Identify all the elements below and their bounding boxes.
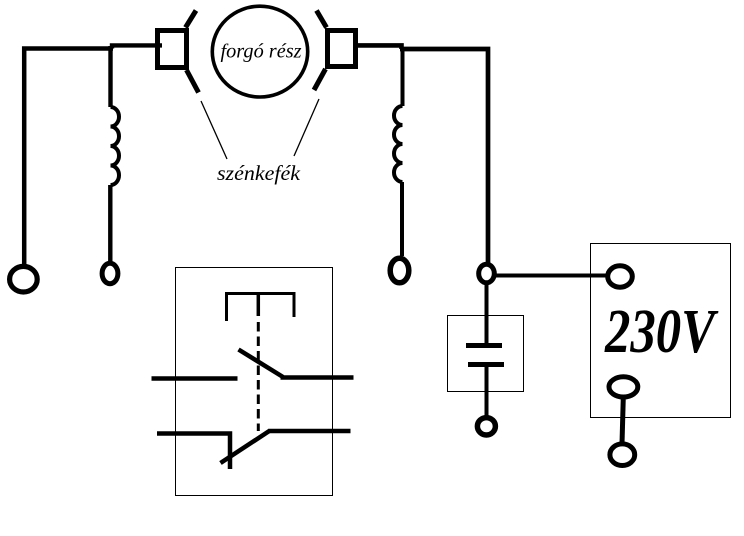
switch S1 pole 1 left contact wire [152, 376, 238, 381]
wire: top horizontal to right vertical [400, 49, 488, 263]
terminal T5 (230V upper) [608, 266, 633, 287]
capacitor C1 bottom plate [468, 362, 504, 367]
switch S1 actuator bar [227, 294, 295, 322]
switch S1 pole 1 right contact wire [281, 375, 354, 380]
terminal T3 (below L2) [390, 258, 409, 283]
wire: C1 to terminal T4 [485, 366, 489, 416]
svg-text:szénkefék: szénkefék [217, 161, 301, 185]
wire: L2 to terminal T3 [400, 182, 404, 256]
terminal T2 (small, below L1) [102, 263, 118, 283]
node N1 (junction circle) [479, 264, 495, 283]
brush B2 upper contact stroke [317, 11, 327, 28]
mains supply box (230V) [591, 244, 731, 418]
rotor circle U1 (forgó rész) [212, 6, 307, 97]
terminal T4 (below capacitor) [477, 418, 495, 435]
wire: node N1 down to capacitor C1 [485, 284, 489, 344]
wire: node N1 to 230V terminal [496, 274, 607, 278]
wire: junction down to field coil L1 [108, 46, 112, 107]
brush B1 upper contact stroke [186, 11, 197, 28]
switch S1 actuator center post [257, 293, 261, 316]
pointer line to left brush [201, 101, 227, 159]
switch S1 coupling dashed line [257, 322, 260, 431]
wire: L1 to terminal T2 [108, 185, 112, 264]
pointer line to right brush [294, 99, 319, 156]
wire: right junction down to field coil L2 [401, 47, 405, 106]
switch S1 enclosure box [176, 268, 333, 496]
brush B1 lower contact stroke [187, 70, 199, 93]
wire: left brush to left junction (upper jog) [112, 45, 162, 48]
switch S1 pole 1 blade [239, 350, 284, 378]
brush B2 (right) holder square [328, 31, 356, 67]
switch S1 pole 2 blade [221, 431, 271, 464]
inductor L2 (right field coil) [394, 106, 403, 182]
terminal T6 (230V lower, inside box) [609, 377, 638, 397]
switch S1 pole 2 left contact wire [157, 434, 230, 470]
wire: top horizontal to far left [24, 49, 113, 265]
brush B1 (left) holder square [158, 31, 187, 68]
brush B2 lower contact stroke [314, 69, 326, 90]
svg-text:230V: 230V [604, 298, 719, 366]
capacitor C1 enclosure box [448, 316, 524, 392]
svg-text:forgó rész: forgó rész [221, 41, 302, 63]
terminal T1 (left, large) [10, 266, 38, 292]
switch S1 pole 2 right contact wire [269, 429, 351, 434]
inductor L1 (left field coil) [111, 107, 120, 185]
wire: T6 to T7 [622, 397, 623, 444]
terminal T7 (below box) [610, 444, 635, 466]
wire: right brush to right (with jog) [356, 45, 402, 49]
capacitor C1 top plate [466, 343, 502, 348]
